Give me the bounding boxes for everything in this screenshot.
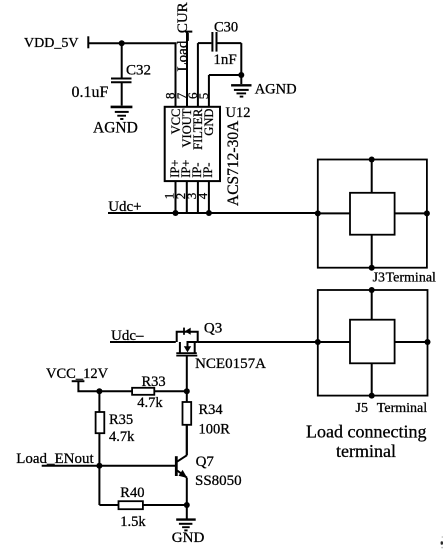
svg-text:J3: J3 [373, 271, 385, 286]
wire Udc- [110, 341, 176, 343]
svg-text:Load connecting: Load connecting [306, 422, 426, 442]
svg-text:4.7k: 4.7k [109, 429, 135, 445]
junction dot [96, 388, 102, 394]
wire [318, 341, 350, 343]
pin 4 wire [208, 181, 210, 213]
wire [371, 160, 373, 193]
base bar [175, 456, 178, 476]
svg-text:R35: R35 [109, 412, 133, 428]
svg-text:GND: GND [172, 530, 205, 546]
wire [371, 363, 373, 395]
svg-text:C32: C32 [126, 63, 151, 79]
pin 8 wire [175, 43, 177, 107]
ground AGND (left) [111, 106, 133, 109]
svg-text:1nF: 1nF [213, 52, 236, 68]
pin 2 wire [186, 181, 188, 213]
svg-text:ACS712-30A: ACS712-30A [225, 120, 242, 206]
node Udc- [111, 328, 144, 344]
node Load_CUR [175, 2, 191, 71]
emitter lead [186, 478, 188, 505]
scan artifact mark (right edge) [441, 541, 443, 544]
channel plate [176, 352, 197, 354]
node Load_ENout [16, 451, 94, 467]
svg-text:5: 5 [196, 93, 211, 100]
svg-text:AGND: AGND [255, 82, 297, 98]
junction dot [206, 210, 212, 216]
pin 3 wire [197, 181, 199, 213]
drain vertical [194, 342, 196, 353]
svg-text:SS8050: SS8050 [195, 473, 242, 489]
body diode bar [183, 328, 185, 335]
source vertical [179, 342, 181, 353]
pin 7 wire [185, 31, 192, 33]
bracket [177, 332, 198, 342]
arrow stem [187, 342, 189, 347]
wire [371, 290, 373, 320]
ground GND [186, 505, 188, 519]
svg-text:VDD_5V: VDD_5V [24, 36, 78, 51]
node Udc+ [108, 199, 141, 215]
svg-text:Load_CUR: Load_CUR [175, 2, 191, 71]
ground AGND (right) [240, 75, 242, 84]
junction dot [238, 72, 244, 78]
svg-text:U12: U12 [226, 105, 251, 121]
wire drain to J5 [198, 341, 318, 343]
svg-text:terminal: terminal [336, 441, 396, 461]
svg-text:4.7k: 4.7k [137, 395, 163, 411]
wire [78, 381, 132, 391]
wire [395, 341, 428, 343]
wire VDD rail [88, 42, 176, 44]
svg-text:IP-: IP- [201, 163, 215, 178]
collector lead [186, 425, 188, 456]
pin 6 wire [197, 43, 199, 107]
wire [98, 466, 100, 505]
svg-text:J5: J5 [356, 401, 368, 416]
arrow [184, 346, 191, 352]
wire [318, 212, 350, 214]
emitter [177, 471, 187, 478]
svg-text:Load_ENout: Load_ENout [16, 451, 94, 467]
capacitor C32 [121, 43, 123, 77]
wire [371, 235, 373, 268]
emitter arrow [179, 470, 188, 478]
port bar [72, 380, 85, 382]
svg-text:R34: R34 [199, 402, 224, 418]
svg-text:R40: R40 [120, 485, 144, 501]
svg-text:100R: 100R [199, 421, 231, 437]
wire Udc+ rail [108, 212, 318, 214]
junction dot [173, 210, 179, 216]
pin 5 wire [209, 74, 241, 76]
junction dot [119, 40, 125, 46]
pin 1 wire [175, 181, 177, 213]
svg-text:Terminal: Terminal [377, 401, 427, 416]
svg-text:VCC_12V: VCC_12V [46, 366, 109, 382]
transistor Q7 SS8050 [176, 425, 187, 505]
body diode triangle [185, 328, 191, 335]
svg-text:Q7: Q7 [196, 454, 215, 470]
svg-text:Q3: Q3 [204, 320, 222, 336]
gate plate [176, 355, 197, 357]
collector [177, 455, 187, 461]
connector J5 Terminal [318, 290, 428, 396]
gate lead [186, 356, 188, 402]
connector J3 Terminal [318, 160, 427, 268]
resistor R35 [98, 391, 100, 412]
svg-text:Terminal: Terminal [386, 271, 436, 286]
wire [395, 212, 427, 214]
svg-text:0.1uF: 0.1uF [72, 84, 109, 101]
svg-text:AGND: AGND [93, 120, 138, 137]
capacitor C30 [211, 32, 213, 52]
resistor R34 [183, 402, 192, 425]
node VDD_5V [24, 36, 78, 51]
svg-text:GND: GND [202, 109, 216, 136]
resistor R33 [132, 388, 154, 395]
label Load connecting terminal [306, 422, 426, 461]
svg-text:R33: R33 [142, 374, 166, 390]
port bar VDD_5V [87, 36, 89, 48]
svg-text:C30: C30 [214, 19, 238, 35]
svg-text:NCE0157A: NCE0157A [195, 356, 266, 372]
wire [42, 465, 176, 467]
resistor R40 [99, 504, 118, 506]
node VCC_12V [46, 366, 109, 382]
transistor Q3 NCE0157A [176, 328, 197, 402]
op-amp U12 ACS712-30A body [165, 107, 220, 181]
svg-text:1.5k: 1.5k [120, 514, 146, 530]
